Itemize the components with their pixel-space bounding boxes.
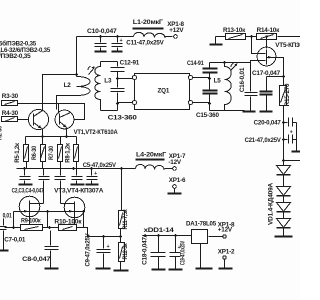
- capacitor C9: [85, 233, 111, 269]
- inductor L5: [214, 63, 232, 111]
- wire diode top to right edge: [284, 160, 301, 162]
- wire C17 to R15 rail: [267, 76, 284, 78]
- node bus R8: [72, 167, 75, 170]
- svg-text:R8-1,2к: R8-1,2к: [64, 142, 71, 162]
- wire tank top: [101, 61, 118, 63]
- resistor R13: [216, 27, 247, 39]
- svg-text:/ПЭВ2-0,35: /ПЭВ2-0,35: [0, 53, 31, 60]
- wire rail corner down to L2: [76, 37, 78, 77]
- inductor L2: [64, 77, 90, 96]
- svg-text:C15-360: C15-360: [196, 112, 219, 119]
- transistor VT4: [61, 197, 85, 218]
- wire VT2 base drop: [58, 104, 60, 114]
- capacitor C19: [169, 236, 187, 270]
- svg-text:+: +: [94, 171, 97, 177]
- ground diode chain: [283, 228, 285, 236]
- wire gate line: [14, 211, 84, 213]
- capacitor C18: [142, 236, 166, 270]
- svg-text:R2-30: R2-30: [0, 125, 4, 140]
- svg-text:+12V: +12V: [169, 27, 184, 34]
- resistor R10: [54, 218, 82, 230]
- connector pin XP1-7: [168, 153, 186, 170]
- node C19 junction: [174, 234, 177, 237]
- svg-text:R9-100к: R9-100к: [21, 217, 41, 224]
- capacitor C4: [55, 169, 66, 204]
- wire R4 to VT1 base: [18, 119, 34, 121]
- node C17/R15 junction: [282, 75, 285, 78]
- node rail-C11 junction: [116, 35, 119, 38]
- node tank-ZQ1 top: [116, 77, 119, 80]
- wire L4 to XP1-7: [165, 168, 173, 170]
- node C18 junction: [157, 234, 160, 237]
- capacitor C10: [87, 28, 117, 52]
- node bus R5: [23, 167, 26, 170]
- wire emitter bus: [26, 136, 77, 138]
- svg-text:C9-47,0x25V: C9-47,0x25V: [85, 233, 92, 267]
- crystal filter ZQ1: [132, 74, 192, 110]
- svg-text:C7-0,01: C7-0,01: [4, 237, 26, 244]
- resistor R6: [31, 145, 46, 162]
- capacitor C16: [239, 61, 257, 111]
- wire VT5 gate2: [251, 61, 266, 63]
- node gate junction 1: [46, 210, 49, 213]
- svg-text:R14-10к: R14-10к: [257, 27, 281, 34]
- resistor R4: [2, 110, 19, 121]
- svg-text:-12V: -12V: [168, 159, 182, 166]
- svg-text:C10-0,047: C10-0,047: [87, 28, 117, 35]
- wire VT3 source: [29, 213, 31, 225]
- connector pin XP1-6: [168, 177, 186, 194]
- capacitor C12: [111, 60, 140, 72]
- wire -12V bus: [17, 168, 136, 170]
- wire gate drop left: [13, 212, 15, 228]
- ground C20/C21: [296, 123, 298, 151]
- winding note text block: [0, 39, 51, 60]
- svg-text:XP1-2: XP1-2: [218, 248, 235, 255]
- diode VD4: [268, 182, 291, 227]
- node tank-ZQ1 bottom: [116, 102, 119, 105]
- svg-text:C20-0,047: C20-0,047: [254, 120, 282, 127]
- resistor R7: [48, 145, 62, 162]
- svg-text:C18-0,047: C18-0,047: [142, 237, 149, 265]
- wire input row: [5, 227, 21, 229]
- svg-text:хDD1-14: хDD1-14: [144, 227, 175, 234]
- svg-text:R10-100к: R10-100к: [54, 218, 82, 225]
- ferrite core arrow L5: [231, 64, 238, 71]
- wire to ZQ1 pin2: [118, 102, 133, 104]
- svg-text:DA1-78L05: DA1-78L05: [186, 221, 217, 228]
- capacitor C8: [22, 231, 58, 269]
- wire VT2 emitter: [66, 128, 68, 137]
- connector pin XP1-8 top: [167, 21, 184, 38]
- wire to ZQ1 pin1: [118, 78, 133, 80]
- svg-text:R4-30: R4-30: [2, 110, 19, 117]
- connector pin XP1-8 right: [218, 222, 235, 239]
- svg-text:L2: L2: [64, 82, 72, 89]
- svg-text:+: +: [120, 38, 123, 44]
- inductor L1: [133, 19, 166, 38]
- diode VD1: [277, 161, 291, 175]
- svg-text:XP1-6: XP1-6: [169, 177, 186, 184]
- regulator DA1: [186, 221, 217, 244]
- wire right tank bottom: [210, 110, 245, 112]
- svg-text:R5-1,2к: R5-1,2к: [14, 142, 21, 162]
- wire R9-R10: [43, 227, 59, 229]
- wire bus stubs to resistors: [26, 137, 77, 145]
- node R11 junction: [119, 235, 122, 238]
- transistor VT3: [19, 188, 104, 217]
- wire +12V top rail: [77, 36, 173, 38]
- diode VD2: [277, 175, 291, 196]
- ferrite core arrow L2/L3: [88, 67, 95, 75]
- svg-text:R13-10к: R13-10к: [223, 27, 246, 34]
- svg-text:+: +: [290, 130, 293, 136]
- capacitor C2: [19, 169, 33, 185]
- svg-text:C2,C3,C4-0,047: C2,C3,C4-0,047: [12, 188, 45, 195]
- svg-text:L4-20мкГ: L4-20мкГ: [136, 152, 167, 159]
- node collector/L2 feed: [75, 73, 78, 76]
- svg-text:VT5-КП303: VT5-КП303: [275, 42, 300, 49]
- wire ZQ1 right pins to C14/C15 column: [193, 78, 210, 104]
- ground C16: [243, 111, 256, 113]
- node C20 junction: [282, 121, 285, 124]
- capacitor C4b: [12, 169, 85, 195]
- svg-text:R12-3к: R12-3к: [122, 243, 129, 260]
- svg-text:R3-30: R3-30: [2, 93, 19, 100]
- node VT5 gate1 junction: [250, 35, 253, 38]
- connector pin XP1-2: [218, 248, 235, 268]
- svg-text:R15-270: R15-270: [284, 83, 291, 106]
- wire to DD1-14: [144, 235, 192, 237]
- resistor R15: [280, 83, 292, 106]
- svg-text:C16-0,01: C16-0,01: [239, 67, 246, 92]
- inductor L3: [95, 62, 112, 111]
- svg-text:ZQ1: ZQ1: [158, 88, 170, 95]
- wire VT1 collector: [43, 75, 77, 111]
- resistor R8: [64, 142, 78, 162]
- node C21 junction: [282, 138, 285, 141]
- svg-text:C21-47,0x25V: C21-47,0x25V: [245, 137, 282, 144]
- svg-text:VT1,VT2-КТ610А: VT1,VT2-КТ610А: [74, 129, 119, 136]
- inductor L4: [136, 152, 167, 171]
- wire VT1 emitter: [42, 129, 44, 137]
- capacitor C20: [254, 118, 297, 127]
- svg-text:C8-0,047: C8-0,047: [22, 256, 51, 263]
- wire VT5 gate1: [252, 37, 266, 54]
- capacitor C15: [196, 79, 219, 120]
- resistor R14: [257, 27, 281, 39]
- node diode chain top: [282, 159, 285, 162]
- wire resistor bottoms to supply bus: [27, 162, 77, 169]
- ground C17: [260, 111, 273, 113]
- wire C12/C13 column: [117, 62, 119, 111]
- wire VT4 source: [74, 213, 76, 225]
- capacitor C5: [83, 162, 117, 185]
- svg-text:0,01: 0,01: [3, 213, 13, 220]
- resistor R9: [21, 217, 43, 230]
- node C9 junction: [102, 235, 105, 238]
- capacitor C17: [252, 70, 281, 111]
- capacitor C14: [187, 60, 218, 78]
- wire R10 right jog: [77, 228, 121, 237]
- node VT5 drain junction: [265, 35, 267, 37]
- capacitor C13: [108, 89, 138, 122]
- node R9/R10 junction: [48, 226, 51, 229]
- node bus C5: [90, 167, 93, 170]
- wire gate stub mid: [48, 212, 84, 228]
- wire VT5 drain: [266, 37, 268, 49]
- node bus R11: [120, 167, 123, 170]
- wire R3 to VT2 base: [18, 103, 59, 105]
- node rail-C10 junction: [99, 35, 102, 38]
- diode VD3: [277, 196, 291, 212]
- wire tank bottom: [101, 110, 118, 112]
- svg-text:C5-47,0x25V: C5-47,0x25V: [83, 162, 117, 169]
- wire VT2 collector loop: [59, 104, 85, 120]
- transistor VT5: [257, 42, 307, 66]
- wire right tank top: [210, 62, 251, 64]
- wire R11 bottom: [120, 229, 122, 243]
- svg-text:C12-91: C12-91: [120, 60, 140, 67]
- resistor R3: [2, 93, 19, 106]
- svg-text:R6-30: R6-30: [31, 145, 38, 160]
- node input junction: [12, 226, 15, 229]
- wire VT5 source to rail: [275, 58, 284, 86]
- transistor VT2: [55, 110, 74, 129]
- capacitor C21: [245, 130, 297, 144]
- resistor R12: [119, 243, 129, 262]
- svg-text:L1-20мкГ: L1-20мкГ: [133, 19, 164, 26]
- svg-text:VT3,VT4-КП307А: VT3,VT4-КП307А: [54, 188, 104, 195]
- wire R14 right: [278, 36, 301, 38]
- ground DA1: [200, 244, 202, 268]
- wire L2 bottom to VT2 area: [57, 96, 77, 110]
- resistor R5: [14, 142, 28, 162]
- svg-text:L3: L3: [104, 78, 112, 85]
- transistor VT1: [28, 109, 118, 136]
- node C15 bottom: [208, 102, 211, 105]
- svg-text:R11-7,5к: R11-7,5к: [122, 209, 129, 230]
- wire R13-R14: [246, 36, 257, 38]
- node C14 bottom: [208, 77, 211, 80]
- ground R12: [120, 262, 122, 270]
- svg-text:+: +: [107, 244, 110, 250]
- node L5 top: [223, 61, 226, 64]
- ground R13: [215, 37, 217, 45]
- svg-text:VD1.4-КД409А: VD1.4-КД409А: [268, 182, 275, 225]
- capacitor C3: [39, 169, 50, 204]
- wire DA1 to XP1-8: [209, 236, 223, 238]
- svg-text:R7-30: R7-30: [48, 145, 55, 160]
- svg-text:C11-47,0x25V: C11-47,0x25V: [126, 40, 164, 47]
- svg-text:C14-91: C14-91: [187, 60, 204, 67]
- svg-text:+12V: +12V: [218, 226, 233, 233]
- svg-text:C13-360: C13-360: [108, 115, 138, 122]
- capacitor C11: [112, 37, 165, 52]
- capacitor C7: [0, 219, 26, 251]
- svg-text:C19-47,0x25V: C19-47,0x25V: [180, 240, 187, 265]
- resistor R11: [119, 169, 129, 230]
- node emitter bus: [41, 135, 44, 138]
- wire rail below R15: [283, 106, 285, 166]
- node gate junction 2: [82, 210, 85, 213]
- svg-text:L5: L5: [214, 77, 222, 84]
- svg-text:C17-0,047: C17-0,047: [252, 70, 281, 77]
